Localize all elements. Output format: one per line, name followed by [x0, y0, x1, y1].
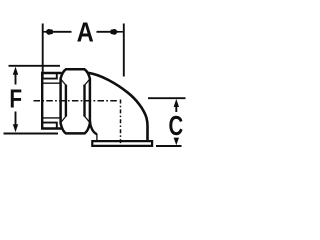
dimension C up arrowhead: [174, 99, 179, 107]
hex nut lower-right facet arc: [85, 116, 90, 122]
dimension A left extension line: [42, 24, 44, 79]
tailpiece socket bottom line: [42, 123, 57, 129]
tailpiece socket top line: [42, 73, 57, 78]
tailpiece bore bottom line: [43, 117, 62, 119]
dimension A line left segment: [50, 31, 72, 33]
dimension F line lower segment: [15, 112, 17, 126]
dimension A right arrowhead: [116, 31, 123, 33]
hex nut upper-left facet arc: [61, 79, 66, 85]
union tailpiece outer rectangle: [42, 73, 61, 129]
dimension F bottom extension line: [4, 133, 59, 135]
tailpiece bore top line: [43, 82, 62, 84]
union hex nut outline: [61, 69, 90, 133]
dimension F top extension line: [9, 65, 61, 67]
dimension C bottom extension line: [156, 145, 182, 147]
hex nut left facet line: [65, 85, 67, 117]
elbow outer profile arc: [87, 73, 147, 141]
horizontal centerline: [34, 100, 118, 102]
dimension F up arrowhead: [13, 67, 18, 75]
svg-text:A: A: [77, 15, 94, 47]
outlet flange: [92, 141, 152, 146]
dimension C down arrowhead: [174, 138, 179, 146]
hex nut upper-right facet arc: [85, 79, 90, 85]
svg-text:C: C: [169, 111, 184, 142]
elbow inner fillet: [90, 121, 97, 134]
dimension A left arrowhead: [43, 31, 46, 33]
dimension A right extension line: [123, 24, 125, 77]
dimension F line upper segment: [15, 73, 17, 85]
dimension F down arrowhead: [13, 124, 18, 132]
outlet left wall: [96, 134, 98, 141]
dimension C top extension line: [148, 97, 186, 99]
dimension A line right segment: [97, 31, 117, 33]
hex nut right facet line: [83, 85, 85, 117]
vertical centerline: [120, 100, 122, 144]
dimension C line upper stub: [175, 107, 177, 112]
hex nut lower-left facet arc: [61, 116, 66, 122]
svg-text:F: F: [9, 84, 22, 113]
